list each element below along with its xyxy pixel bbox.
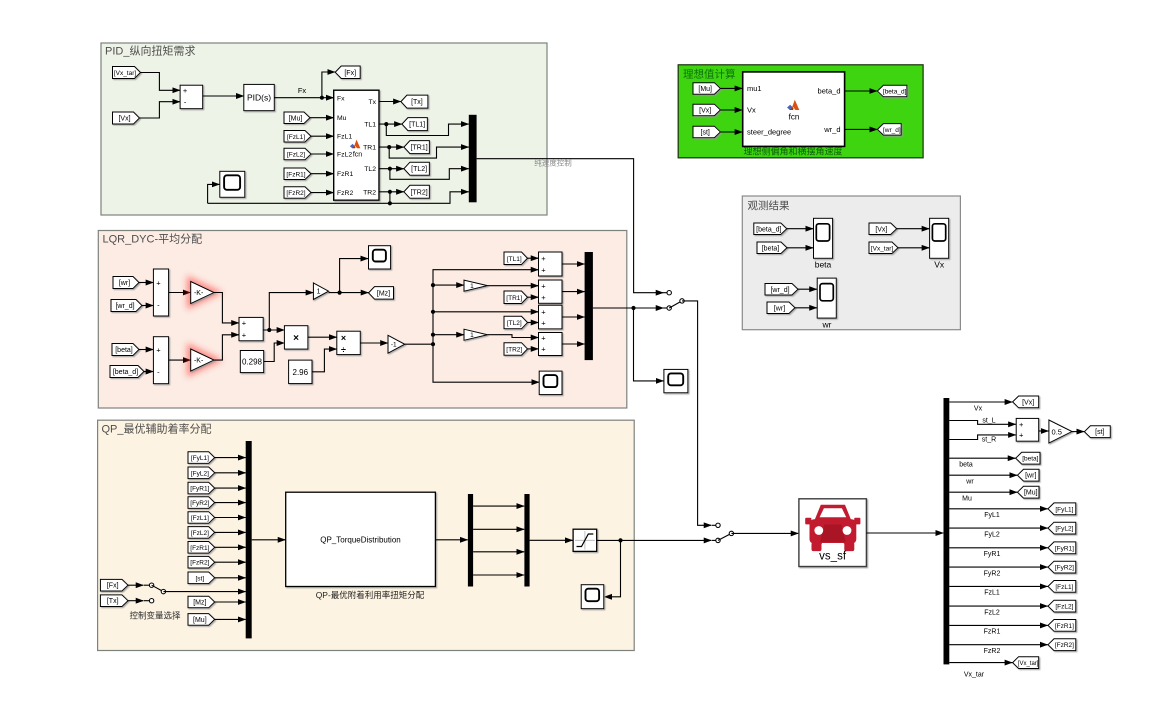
- goto tag [FzL1] (right): [1048, 581, 1076, 593]
- wire st_R out: [949, 435, 1016, 440]
- fcn2 MATLAB logo icon: [787, 100, 799, 110]
- gain1 -K- triangle: [191, 282, 214, 304]
- svg-text:控制变量选择: 控制变量选择: [129, 611, 181, 621]
- wire FzR2 out: [949, 644, 1048, 646]
- svg-text:[FzL2]: [FzL2]: [1055, 604, 1073, 611]
- svg-text:[FzL2]: [FzL2]: [287, 152, 305, 159]
- svg-text:+: +: [541, 308, 546, 317]
- wire gain -1 to bus: [405, 343, 433, 345]
- goto tag [FyR2] (right): [1048, 561, 1076, 573]
- svg-text:0.5: 0.5: [1052, 427, 1062, 436]
- svg-text:+: +: [1019, 420, 1024, 429]
- svg-text:Vx_tar: Vx_tar: [964, 672, 985, 679]
- svg-text:FzL2: FzL2: [337, 152, 352, 159]
- wire [Tx] to switch3: [128, 600, 144, 602]
- svg-text:[TL2]: [TL2]: [507, 320, 522, 327]
- from tag [beta] (obs): [757, 242, 787, 254]
- svg-text:[FyL2]: [FyL2]: [191, 470, 209, 477]
- wire demux4 to mux4 line4: [473, 574, 524, 576]
- from tag [FyR2] (QP): [188, 497, 215, 509]
- wire st_L out: [949, 421, 1016, 425]
- svg-text:[st]: [st]: [1095, 429, 1104, 436]
- svg-text:[Mu]: [Mu]: [698, 86, 712, 93]
- scope wr: [817, 278, 836, 318]
- svg-text:[FyL1]: [FyL1]: [1055, 506, 1073, 513]
- wire branch Fx to goto [Fx]: [322, 72, 335, 98]
- wire gain3 to sumA: [488, 285, 539, 287]
- constant 2.96: [289, 360, 312, 384]
- scope7 (QP scope): [581, 585, 604, 609]
- svg-text:[Vx]: [Vx]: [875, 226, 887, 233]
- svg-text:[beta_d]: [beta_d]: [756, 226, 781, 233]
- wire [TR1] to sumB: [528, 296, 539, 298]
- svg-text:纯速度控制: 纯速度控制: [534, 158, 572, 168]
- svg-text:FzL2: FzL2: [984, 609, 1000, 616]
- goto tag [st] (right): [1084, 426, 1110, 438]
- sumC block: [539, 305, 563, 329]
- svg-text:Mu: Mu: [962, 496, 972, 503]
- switch1 input circle top: [664, 292, 670, 294]
- wire [wr_d] to sum1: [142, 305, 153, 307]
- svg-text:beta: beta: [959, 462, 973, 469]
- svg-text:Tx: Tx: [368, 99, 376, 106]
- from tag [st] (QP): [188, 572, 215, 584]
- from tag [FyL1] (QP): [188, 452, 215, 464]
- wire [TR2] to sumD: [528, 348, 539, 350]
- from tag [FyL2] (QP): [188, 467, 215, 479]
- region box 理想值计算: [678, 65, 923, 158]
- wire demux4 to mux4 line3: [473, 551, 524, 553]
- from tag [beta_d]: [110, 366, 144, 378]
- bottom feedback line to mux: [208, 192, 469, 204]
- svg-text:[FzR1]: [FzR1]: [1055, 623, 1074, 630]
- goto tag [FzL2] (right): [1048, 600, 1076, 612]
- wire [Vx_tar] to scope Vx: [898, 247, 929, 249]
- bus junction 1: [431, 283, 435, 287]
- wire [Mu] to fcn2: [720, 87, 742, 89]
- svg-text:PID(s): PID(s): [247, 93, 271, 103]
- from tag [Tx] (QP): [100, 595, 128, 607]
- goto tag [wr_d] (green): [877, 124, 901, 136]
- wire TR1 branch to mux: [389, 147, 469, 158]
- sumA block: [539, 252, 563, 276]
- wire [wr_d] to scope wr: [798, 288, 817, 290]
- svg-text:[beta]: [beta]: [762, 245, 780, 252]
- svg-text:FyR2: FyR2: [984, 570, 1001, 577]
- svg-text:[TL1]: [TL1]: [507, 256, 522, 263]
- svg-text:QP_TorqueDistribution: QP_TorqueDistribution: [320, 536, 400, 545]
- svg-text:+: +: [541, 254, 546, 263]
- wire FyR2 out: [949, 566, 1048, 568]
- region box PID_纵向扭矩需求: [101, 43, 547, 215]
- wire [FzR1] to mux3: [215, 546, 246, 548]
- svg-text:FzR1: FzR1: [337, 171, 353, 178]
- junction TR2 bottom: [388, 201, 392, 205]
- from tag [Mu]: [284, 112, 310, 124]
- wire [TL1] to sumA: [528, 257, 539, 259]
- scope Vx: [930, 218, 949, 258]
- svg-text:[FyR2]: [FyR2]: [1055, 565, 1074, 572]
- goto tag [TL1]: [402, 118, 428, 131]
- svg-text:[TR2]: [TR2]: [411, 189, 428, 196]
- goto tag [Tx]: [401, 95, 428, 108]
- svg-text:1: 1: [470, 283, 474, 290]
- svg-text:+: +: [242, 331, 247, 340]
- svg-text:FzL1: FzL1: [337, 134, 352, 141]
- svg-text:wr_d: wr_d: [823, 125, 840, 134]
- scope4 (below switch1): [664, 369, 688, 392]
- svg-text:vs_sf: vs_sf: [819, 551, 847, 563]
- svg-text:+: +: [541, 345, 546, 354]
- svg-text:[FyR1]: [FyR1]: [190, 486, 209, 493]
- goto tag [FzR2] (right): [1048, 639, 1076, 651]
- svg-text:+: +: [156, 278, 161, 287]
- switch3 input circle bottom: [144, 600, 152, 602]
- switch2 lever diagonal: [718, 533, 731, 540]
- junction LQR out: [631, 306, 635, 310]
- wire fcn TL2 out: [379, 168, 404, 170]
- wire [Vx] to scope Vx: [897, 228, 930, 230]
- from tag [FyR1] (QP): [188, 482, 215, 494]
- svg-text:[wr_d]: [wr_d]: [770, 287, 789, 294]
- wire mux3 to QP block: [252, 539, 286, 541]
- mux3 (QP inputs): [246, 441, 252, 638]
- svg-text:[TL2]: [TL2]: [411, 166, 427, 173]
- svg-text:[beta]: [beta]: [115, 347, 133, 354]
- wire fcn TL1 out: [379, 123, 402, 125]
- wire [beta_d] to scope beta: [787, 228, 813, 230]
- wire sum2 to gain2: [169, 359, 191, 361]
- wire sumB to mux2: [562, 291, 585, 293]
- goto tag [Mu] (right): [1018, 486, 1040, 498]
- svg-text:÷: ÷: [341, 345, 346, 355]
- junction TL1: [384, 122, 388, 126]
- svg-text:1: 1: [470, 332, 474, 339]
- wire Mu out: [949, 491, 1017, 493]
- svg-text:[FyL2]: [FyL2]: [1055, 526, 1073, 533]
- from tag [FzL1]: [284, 131, 311, 143]
- region box QP_最优辅助着率分配: [98, 420, 635, 650]
- scope5 (LQR bottom): [539, 371, 562, 395]
- wire branch to scope6: [340, 259, 369, 293]
- svg-text:[wr]: [wr]: [119, 280, 130, 287]
- wire [FyR2] to mux3: [215, 502, 246, 504]
- from tag [wr]: [113, 277, 139, 289]
- svg-text:[FzR2]: [FzR2]: [1055, 642, 1074, 649]
- from tag [Mz] (QP): [188, 596, 215, 608]
- region box 观测结果: [742, 196, 960, 330]
- sum3 (Mz sum): [239, 317, 263, 340]
- gain3 triangle 1: [464, 280, 488, 291]
- svg-text:[TR2]: [TR2]: [506, 346, 522, 353]
- wire [FyR1] to mux3: [215, 487, 246, 489]
- svg-text:[FyR1]: [FyR1]: [1055, 545, 1074, 552]
- wire branch to scope7: [604, 540, 620, 596]
- divide block ×÷: [337, 331, 361, 355]
- svg-text:×: ×: [341, 333, 346, 343]
- svg-text:[Vx]: [Vx]: [1022, 399, 1034, 406]
- svg-text:+: +: [541, 293, 546, 302]
- wire gain5 to [Mz] and scope6: [329, 292, 369, 294]
- svg-text:[Vx]: [Vx]: [699, 107, 711, 114]
- svg-text:+: +: [242, 319, 247, 328]
- wire [FzL1] to mux3: [215, 517, 246, 519]
- svg-text:Vx: Vx: [934, 260, 945, 270]
- svg-text:[FzR2]: [FzR2]: [286, 190, 305, 197]
- wire fcn Tx to goto [Tx]: [379, 101, 401, 103]
- wire [FzL2] to mux3: [215, 531, 246, 533]
- svg-text:st_L: st_L: [982, 418, 995, 425]
- MATLAB Function block fcn2 (ideal values): [743, 72, 845, 146]
- svg-text:[TL1]: [TL1]: [409, 122, 425, 129]
- wire [FyL1] to mux3: [215, 457, 246, 459]
- wire sum to PID: [203, 95, 244, 97]
- goto tag [Vx_tar] (right): [1013, 657, 1039, 669]
- wire fcn2 wr_d to goto: [845, 128, 878, 130]
- svg-text:FyL2: FyL2: [984, 531, 1000, 538]
- vertical bus wire: [433, 270, 539, 345]
- wire bus to gain4: [433, 334, 464, 336]
- goto tag [FyR1] (right): [1048, 542, 1076, 554]
- wire [FzR2] to mux3: [215, 561, 246, 563]
- svg-text:[TR1]: [TR1]: [506, 295, 522, 302]
- wire sum1 to gain1: [169, 292, 191, 294]
- svg-text:[Tx]: [Tx]: [107, 598, 119, 605]
- sum1 (wr error): [153, 269, 168, 316]
- svg-text:[wr_d]: [wr_d]: [115, 303, 134, 310]
- wire mux4 to saturation: [530, 539, 573, 541]
- wire Vx out: [949, 401, 1012, 403]
- wire [beta] to sum2: [139, 349, 153, 351]
- wire sum3 out: [263, 329, 284, 331]
- from tag [beta_d] (obs): [754, 223, 787, 235]
- wire [beta] to scope beta: [787, 247, 813, 249]
- wire gain1 to sum3: [214, 293, 239, 323]
- wire PID to fcn Fx (signal Fx): [274, 97, 333, 99]
- svg-text:[beta_d]: [beta_d]: [113, 369, 138, 376]
- svg-text:wr: wr: [965, 479, 974, 486]
- wire [Fx] to switch3: [128, 584, 144, 586]
- svg-text:理想侧偏角和横摆角速度: 理想侧偏角和横摆角速度: [743, 146, 842, 157]
- svg-text:[beta_d]: [beta_d]: [883, 89, 907, 96]
- fcn MATLAB logo icon: [350, 140, 360, 149]
- from tag [Mu] (QP): [188, 614, 215, 626]
- wire TL1 branch to mux: [386, 124, 469, 135]
- junction TR1: [387, 145, 391, 149]
- svg-text:FyR1: FyR1: [984, 551, 1001, 558]
- from tag [st] (green): [693, 126, 720, 138]
- goto tag [Fx]: [335, 66, 360, 79]
- junction on Fx wire: [320, 96, 324, 100]
- wire wr out: [949, 474, 1017, 476]
- svg-text:[Vx]: [Vx]: [118, 116, 130, 123]
- wire FzL2 out: [949, 605, 1048, 607]
- demux4 bar: [468, 494, 473, 587]
- wire product to divide: [308, 336, 337, 338]
- switch2 input circle top: [712, 524, 718, 526]
- wire [Mu] to mux3: [215, 618, 246, 620]
- goto tag [Vx] (right): [1013, 396, 1039, 408]
- svg-text:×: ×: [293, 333, 299, 344]
- svg-text:[FzR1]: [FzR1]: [190, 545, 209, 552]
- wire [wr] to sum1: [139, 282, 153, 284]
- QP_TorqueDistribution subsystem block: [286, 492, 436, 586]
- bus junction 3: [431, 333, 435, 337]
- svg-text:[Vx_tar]: [Vx_tar]: [1018, 661, 1039, 667]
- svg-text:[st]: [st]: [196, 575, 205, 582]
- svg-text:QP_最优辅助着率分配: QP_最优辅助着率分配: [102, 422, 212, 436]
- wire FyR1 out: [949, 547, 1048, 549]
- wire [st] to fcn2: [720, 131, 742, 133]
- svg-text:[Mz]: [Mz]: [377, 290, 390, 297]
- wire feedback to scope1: [208, 184, 220, 203]
- wire demux4 to mux4 line1: [473, 505, 524, 507]
- switch3 input circle top: [144, 584, 152, 586]
- junction saturation out: [618, 538, 622, 542]
- wire bus to sumC: [433, 311, 539, 313]
- from tag [FzR1]: [284, 168, 311, 180]
- svg-text:理想值计算: 理想值计算: [683, 68, 736, 81]
- from tag [wr_d]: [111, 300, 142, 312]
- goto tag [wr] (right): [1018, 469, 1040, 481]
- wire Vx_tar out: [949, 662, 1012, 664]
- goto tag [FyL2] (right): [1048, 522, 1076, 534]
- from tag [Vx] (green): [693, 104, 720, 116]
- wire [TL2] to sumC: [528, 322, 539, 324]
- junction -1 on bus: [431, 342, 435, 346]
- svg-text:[Mz]: [Mz]: [193, 600, 206, 607]
- MATLAB Function block fcn (torque demand): [334, 90, 379, 200]
- wire 2.96 to divide: [312, 349, 337, 372]
- switch1 output circle: [680, 299, 684, 303]
- svg-text:[st]: [st]: [701, 129, 710, 136]
- wire switch2 to vs_sf: [731, 532, 798, 534]
- svg-text:steer_degree: steer_degree: [747, 128, 791, 137]
- goto tag [beta_d] (green): [877, 85, 907, 97]
- gain5 triangle 1: [313, 283, 328, 300]
- goto tag [beta] (right): [1016, 452, 1040, 464]
- scope beta: [814, 218, 833, 258]
- wire [FyL2] to mux3: [215, 472, 246, 474]
- wire [FzR2] to fcn: [311, 192, 334, 194]
- sumB block: [539, 280, 563, 303]
- wire switch1 to switch2: [682, 301, 712, 525]
- wire vs_sf to demux5: [866, 532, 943, 534]
- switch1 input circle bottom: [664, 307, 670, 309]
- svg-text:[beta]: [beta]: [1022, 456, 1038, 463]
- wire [Vx] to fcn2: [720, 109, 742, 111]
- wire mux2 to switch1 (LQR torque): [593, 307, 664, 309]
- wire FyL2 out: [949, 527, 1048, 529]
- wire [Vx] to sum: [140, 102, 181, 118]
- svg-text:FzL1: FzL1: [984, 590, 1000, 597]
- switch3 output circle: [161, 589, 165, 593]
- svg-text:[Fx]: [Fx]: [107, 583, 119, 590]
- wire divide to gain -1: [360, 342, 388, 344]
- wire [FzL2] to fcn: [311, 153, 334, 155]
- car icon (red): [805, 505, 860, 551]
- svg-text:[Fx]: [Fx]: [344, 70, 356, 77]
- svg-text:mu1: mu1: [747, 84, 762, 93]
- from tag [Vx] (obs): [869, 223, 897, 235]
- from tag [Vx_tar] (obs): [869, 242, 898, 254]
- wire demux4 to mux4 line2: [473, 528, 524, 530]
- wire 0.298 to product: [264, 343, 285, 362]
- svg-text:[FyR2]: [FyR2]: [190, 500, 209, 507]
- svg-text:Vx: Vx: [747, 106, 756, 115]
- svg-text:Vx: Vx: [974, 406, 983, 413]
- gain -1 triangle: [388, 335, 405, 353]
- wire sumD to mux2: [562, 343, 585, 345]
- svg-text:FzR2: FzR2: [984, 648, 1001, 655]
- from tag [TL2] (LQR): [504, 316, 528, 329]
- region box LQR_DYC-平均分配: [98, 231, 627, 409]
- wire FzR1 out: [949, 624, 1048, 626]
- red glow highlight gain2: [191, 349, 214, 371]
- wire saturation to switch2: [597, 539, 712, 541]
- svg-text:[FzL1]: [FzL1]: [191, 515, 209, 522]
- svg-text:[Tx]: [Tx]: [411, 99, 423, 106]
- goto tag [FyL1] (right): [1048, 503, 1076, 515]
- wire beta out: [949, 457, 1015, 459]
- wire [wr] to scope wr: [795, 307, 817, 309]
- wire fcn2 beta_d to goto: [845, 90, 878, 92]
- svg-text:[wr]: [wr]: [1025, 473, 1036, 480]
- wire sum5 to gain 0.5: [1039, 430, 1049, 432]
- svg-text:[wr]: [wr]: [774, 305, 785, 312]
- gain 0.5 triangle: [1049, 420, 1072, 443]
- from tag [TL1] (LQR): [504, 252, 528, 265]
- svg-text:[FzL1]: [FzL1]: [287, 134, 305, 141]
- svg-text:FzR1: FzR1: [984, 629, 1001, 636]
- svg-text:TL2: TL2: [364, 166, 376, 173]
- wire mux1 to switch1 (PID torque): [477, 159, 664, 293]
- goto tag [TR2]: [404, 185, 430, 198]
- wire FzL1 out: [949, 585, 1048, 587]
- from tag [TR1] (LQR): [504, 291, 528, 304]
- wire [Mu] to fcn: [310, 117, 334, 119]
- product block ×: [284, 326, 308, 349]
- from tag [FzL2] (QP): [188, 527, 215, 539]
- wire fcn TR2 out: [379, 191, 404, 193]
- svg-text:PID_纵向扭矩需求: PID_纵向扭矩需求: [105, 44, 195, 58]
- svg-text:Fx: Fx: [337, 95, 345, 102]
- svg-text:+: +: [156, 345, 161, 354]
- scope1 (PID region): [220, 171, 245, 197]
- svg-text:Fx: Fx: [298, 86, 307, 95]
- wire TR2 branch down to bottom feedback line: [389, 192, 391, 204]
- svg-text:[Mu]: [Mu]: [193, 617, 207, 624]
- svg-text:beta: beta: [815, 260, 832, 270]
- svg-text:[FzR1]: [FzR1]: [286, 171, 305, 178]
- junction gain5 out: [338, 291, 342, 295]
- sumD block: [539, 333, 563, 356]
- PID(s) controller block: [244, 84, 274, 110]
- svg-text:-K-: -K-: [194, 358, 204, 365]
- svg-text:0.298: 0.298: [242, 358, 263, 367]
- vehicle subsystem block vs_sf: [799, 499, 867, 567]
- goto tag [TL2]: [404, 162, 430, 175]
- switch1 lever diagonal: [669, 301, 682, 308]
- wire gain4 to sumD: [488, 335, 539, 338]
- from tag [FzR1] (QP): [188, 542, 215, 554]
- svg-text:+: +: [541, 266, 546, 275]
- svg-text:-1: -1: [391, 342, 397, 349]
- sum2 (beta error): [153, 337, 168, 384]
- from tag [Mu] (green): [693, 83, 720, 95]
- wire [Vx_tar] to sum: [141, 73, 181, 91]
- svg-text:TL1: TL1: [364, 122, 376, 129]
